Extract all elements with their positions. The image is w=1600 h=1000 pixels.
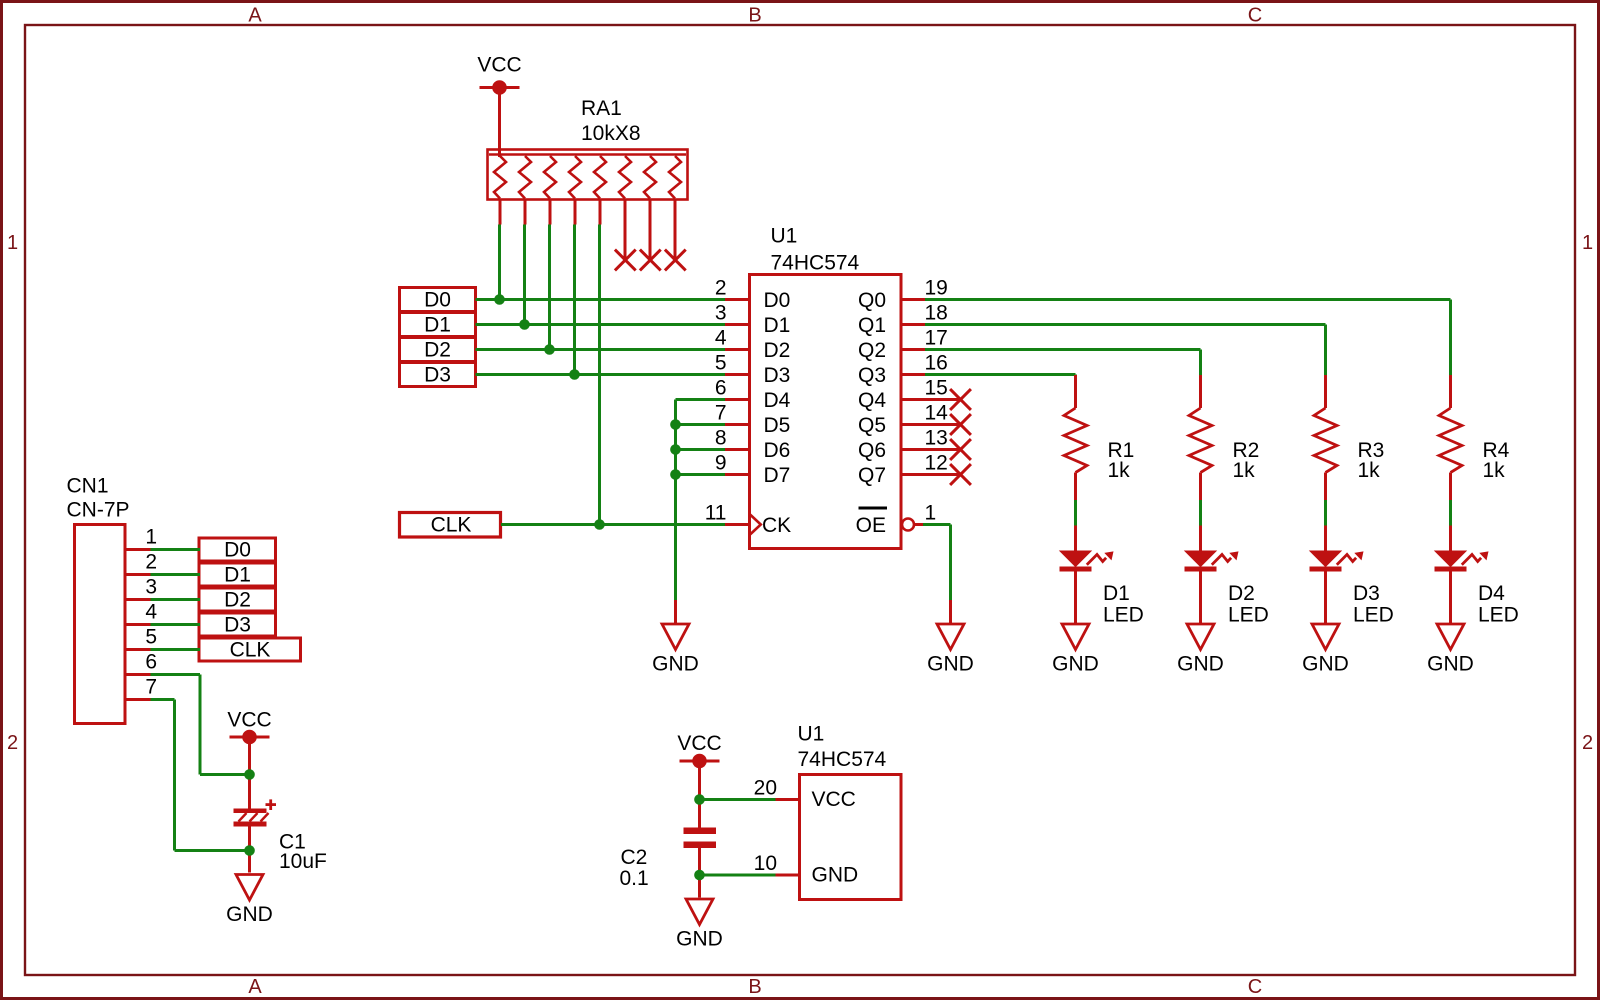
svg-text:1k: 1k — [1233, 459, 1256, 482]
capacitor C2 0.1 — [620, 828, 717, 891]
svg-text:Q7: Q7 — [858, 464, 886, 487]
ground symbol (LED D1) — [1052, 624, 1099, 676]
net label D1 (CN1 side) — [199, 563, 276, 587]
svg-text:2: 2 — [715, 277, 727, 300]
wire CN1 pin 7 to C1 — [151, 700, 250, 851]
svg-text:1: 1 — [925, 502, 937, 525]
svg-text:5: 5 — [145, 626, 157, 649]
svg-text:LED: LED — [1478, 604, 1519, 627]
svg-text:GND: GND — [1302, 653, 1349, 676]
LED D3 — [1310, 526, 1394, 627]
wire C1 to ground — [248, 827, 251, 873]
junction net D0 — [494, 294, 505, 305]
svg-text:GND: GND — [927, 653, 974, 676]
svg-text:20: 20 — [754, 777, 777, 800]
svg-text:Q4: Q4 — [858, 389, 886, 412]
LED D1 — [1060, 526, 1144, 627]
svg-text:74HC574: 74HC574 — [798, 748, 887, 771]
svg-text:CN-7P: CN-7P — [67, 499, 130, 522]
svg-text:Q5: Q5 — [858, 414, 886, 437]
svg-text:6: 6 — [145, 651, 157, 674]
svg-text:U1: U1 — [798, 723, 825, 746]
svg-text:17: 17 — [925, 327, 948, 350]
wire VCC to C1 — [248, 737, 251, 810]
net label D0 (CN1 side) — [199, 538, 276, 562]
net label D3 (CN1 side) — [199, 613, 276, 637]
junction C2/pin10 — [694, 870, 705, 881]
svg-text:7: 7 — [145, 676, 157, 699]
no-connect X marks RA1 pins — [615, 250, 686, 271]
IC U1 74HC574 (logic gate) — [705, 225, 961, 549]
svg-text:B: B — [748, 5, 761, 27]
svg-text:15: 15 — [925, 377, 948, 400]
svg-text:1: 1 — [145, 526, 157, 549]
ground symbol (C1) — [226, 875, 273, 927]
svg-text:2: 2 — [7, 732, 18, 754]
ground symbol (LED D4) — [1427, 624, 1474, 676]
capacitor C1 10uF (polarized) — [234, 799, 327, 873]
VCC power symbol above C2 — [677, 732, 721, 768]
svg-text:Q3: Q3 — [858, 364, 886, 387]
svg-text:D7: D7 — [764, 464, 791, 487]
svg-text:CN1: CN1 — [67, 475, 109, 498]
svg-text:A: A — [248, 5, 262, 27]
svg-text:3: 3 — [715, 302, 727, 325]
svg-text:1: 1 — [7, 232, 18, 254]
svg-text:GND: GND — [652, 653, 699, 676]
junction VCC/C1 — [244, 769, 255, 780]
svg-text:Q6: Q6 — [858, 439, 886, 462]
ground symbol (LED D3) — [1302, 624, 1349, 676]
svg-text:74HC574: 74HC574 — [771, 251, 860, 274]
wire net CLK — [501, 225, 725, 525]
svg-text:D1: D1 — [764, 314, 791, 337]
svg-text:7: 7 — [715, 402, 727, 425]
wire VCC to RA1 — [498, 88, 501, 158]
svg-text:D3: D3 — [424, 363, 451, 386]
svg-text:D3: D3 — [764, 364, 791, 387]
svg-text:10: 10 — [754, 852, 777, 875]
wire VCC to U1 pin 20 — [700, 798, 800, 801]
svg-text:D6: D6 — [764, 439, 791, 462]
svg-text:D1: D1 — [1103, 582, 1130, 605]
net label CLK (CN1 side) — [199, 638, 301, 662]
svg-text:Q0: Q0 — [858, 289, 886, 312]
resistor R3 1k — [1314, 375, 1384, 500]
svg-text:CK: CK — [762, 514, 791, 537]
wire C2 to ground — [698, 848, 701, 898]
svg-text:VCC: VCC — [677, 732, 721, 755]
wire net LED3 anode — [1324, 500, 1327, 526]
wire net GND (D4-D7 tie) — [676, 400, 726, 624]
svg-text:OE: OE — [856, 514, 886, 537]
svg-text:4: 4 — [715, 327, 727, 350]
junction VCC/C2 — [694, 794, 705, 805]
svg-text:18: 18 — [925, 302, 948, 325]
svg-text:GND: GND — [812, 864, 859, 887]
junction net D2 — [544, 344, 555, 355]
net label D1 (top) — [400, 313, 476, 337]
svg-text:19: 19 — [925, 277, 948, 300]
no-connect X marks Q4-Q7 — [950, 389, 971, 485]
IC U1 74HC574 power gate — [754, 723, 901, 900]
svg-text:11: 11 — [705, 502, 727, 525]
svg-text:C: C — [1248, 5, 1262, 27]
svg-text:D2: D2 — [1228, 582, 1255, 605]
svg-text:12: 12 — [925, 452, 948, 475]
RA1 bottom pin stubs — [500, 199, 675, 261]
svg-text:B: B — [748, 976, 761, 998]
svg-text:U1: U1 — [771, 225, 798, 248]
svg-text:GND: GND — [1427, 653, 1474, 676]
svg-text:CLK: CLK — [431, 514, 472, 537]
junction net D3 — [569, 369, 580, 380]
svg-text:3: 3 — [145, 576, 157, 599]
wire CN1 pin 5 — [151, 648, 201, 651]
net label CLK (top) — [400, 513, 501, 538]
svg-text:D0: D0 — [764, 289, 791, 312]
svg-text:VCC: VCC — [812, 788, 856, 811]
svg-text:D5: D5 — [764, 414, 791, 437]
svg-text:VCC: VCC — [227, 709, 271, 732]
svg-text:D3: D3 — [1353, 582, 1380, 605]
svg-text:4: 4 — [145, 601, 157, 624]
svg-text:D2: D2 — [424, 338, 451, 361]
junction D4-D7 tie — [670, 444, 681, 455]
ground symbol (OE) — [927, 624, 974, 676]
resistor R2 1k — [1189, 375, 1259, 500]
wire net D3 — [476, 225, 726, 375]
resistor array RA1 10kX8 — [488, 97, 688, 200]
svg-text:8: 8 — [715, 427, 727, 450]
svg-text:D2: D2 — [224, 589, 251, 612]
wire net D1 — [476, 225, 726, 325]
svg-text:10kX8: 10kX8 — [581, 122, 641, 145]
net label D2 (CN1 side) — [199, 588, 276, 612]
wire GND to U1 pin 10 — [700, 874, 800, 877]
svg-text:5: 5 — [715, 352, 727, 375]
svg-text:14: 14 — [925, 402, 949, 425]
svg-text:2: 2 — [1582, 732, 1593, 754]
svg-text:9: 9 — [715, 452, 727, 475]
VCC power symbol above C1 — [227, 709, 271, 745]
svg-text:VCC: VCC — [477, 54, 521, 77]
wire net Q2 — [925, 350, 1201, 377]
svg-text:GND: GND — [1052, 653, 1099, 676]
svg-text:1k: 1k — [1483, 459, 1506, 482]
svg-text:C2: C2 — [621, 846, 648, 869]
svg-text:1: 1 — [1582, 232, 1593, 254]
ground symbol below CLK area — [652, 624, 699, 676]
wire CN1 pin 1 — [151, 548, 201, 551]
svg-text:2: 2 — [145, 551, 157, 574]
svg-text:Q1: Q1 — [858, 314, 886, 337]
ground symbol (LED D2) — [1177, 624, 1224, 676]
wire CN1 pin 3 — [151, 598, 201, 601]
wire net Q0 — [925, 300, 1451, 377]
wire net LED4 anode — [1449, 500, 1452, 526]
svg-text:LED: LED — [1353, 604, 1394, 627]
LED D2 — [1185, 526, 1269, 627]
svg-text:1k: 1k — [1108, 459, 1131, 482]
wire CN1 pin 4 — [151, 623, 201, 626]
junction D4-D7 tie — [670, 419, 681, 430]
svg-text:10uF: 10uF — [279, 850, 327, 873]
wire net Q1 — [925, 325, 1326, 377]
wire CN1 pin 2 — [151, 573, 201, 576]
junction C1/pin7 — [244, 845, 255, 856]
junction net CLK — [594, 519, 605, 530]
resistor R1 1k — [1064, 375, 1134, 500]
svg-text:GND: GND — [226, 903, 273, 926]
wire net D2 — [476, 225, 726, 350]
svg-text:LED: LED — [1228, 604, 1269, 627]
svg-text:D1: D1 — [424, 313, 451, 336]
svg-text:GND: GND — [1177, 653, 1224, 676]
svg-text:Q2: Q2 — [858, 339, 886, 362]
VCC power symbol above RA1 — [477, 54, 521, 95]
svg-text:C: C — [1248, 976, 1262, 998]
net label D0 (top) — [400, 288, 476, 312]
wire net LED2 anode — [1199, 500, 1202, 526]
svg-text:GND: GND — [676, 928, 723, 951]
svg-text:A: A — [248, 976, 262, 998]
svg-text:RA1: RA1 — [581, 97, 622, 120]
LED D4 — [1435, 526, 1519, 627]
svg-text:D1: D1 — [224, 564, 251, 587]
svg-text:D4: D4 — [764, 389, 791, 412]
connector CN1 CN-7P — [67, 475, 158, 724]
junction D4-D7 tie — [670, 469, 681, 480]
wire net OE to ground — [923, 525, 951, 624]
svg-text:D3: D3 — [224, 614, 251, 637]
svg-text:13: 13 — [925, 427, 948, 450]
net label D2 (top) — [400, 338, 476, 362]
svg-text:16: 16 — [925, 352, 948, 375]
svg-text:CLK: CLK — [230, 639, 271, 662]
wire CN1 pin 6 to VCC — [151, 675, 250, 775]
svg-text:D2: D2 — [764, 339, 791, 362]
svg-text:LED: LED — [1103, 604, 1144, 627]
svg-text:D0: D0 — [224, 539, 251, 562]
svg-text:D4: D4 — [1478, 582, 1505, 605]
wire net D0 — [476, 225, 726, 300]
resistor R4 1k — [1439, 375, 1510, 500]
junction net D1 — [519, 319, 530, 330]
svg-text:D0: D0 — [424, 288, 451, 311]
net label D3 (top) — [400, 363, 476, 387]
wire VCC to C2 — [698, 761, 701, 828]
svg-text:0.1: 0.1 — [620, 867, 649, 890]
svg-text:6: 6 — [715, 377, 727, 400]
ground symbol (C2) — [676, 899, 723, 951]
wire net Q3 — [925, 375, 1076, 377]
wire net LED1 anode — [1074, 500, 1077, 526]
svg-text:1k: 1k — [1358, 459, 1381, 482]
